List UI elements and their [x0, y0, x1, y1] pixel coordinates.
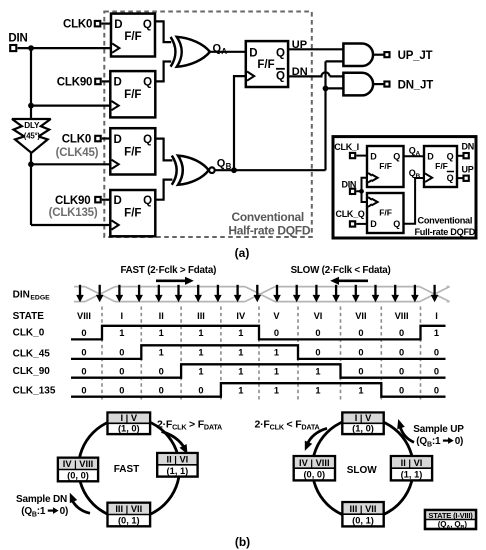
svg-text:1: 1 [238, 367, 243, 377]
wire QB to AND gates [215, 169, 326, 171]
wire FFc Qbar to UP port [457, 177, 463, 179]
svg-text:II | VI: II | VI [167, 455, 189, 465]
svg-text:I: I [121, 311, 124, 321]
svg-text:0: 0 [81, 367, 86, 377]
svg-text:0: 0 [399, 348, 404, 358]
wire QB up to central FF clock [234, 76, 246, 170]
svg-text:F/F: F/F [124, 89, 141, 101]
svg-text:0: 0 [358, 348, 363, 358]
waveform CLK_0 bit values [81, 328, 439, 338]
svg-text:CLK_45: CLK_45 [13, 348, 51, 359]
svg-text:0: 0 [358, 367, 363, 377]
svg-text:1: 1 [198, 328, 203, 338]
svg-text:DIN: DIN [13, 289, 30, 300]
port CLK0 (CLK45) [56, 134, 101, 159]
svg-text:0: 0 [434, 367, 439, 377]
port CLK90 (CLK135) [49, 195, 101, 219]
svg-text:CLK_135: CLK_135 [13, 386, 56, 397]
svg-text:Q: Q [217, 157, 226, 169]
node label QB (inset) [409, 168, 421, 180]
svg-text:(1, 0): (1, 0) [118, 423, 140, 433]
state node IV|VIII slow [294, 456, 335, 480]
svg-text:CLK0: CLK0 [63, 19, 92, 31]
svg-text:DLY: DLY [24, 121, 40, 130]
svg-text:CLK0: CLK0 [62, 134, 91, 146]
inset box: Conventional Full-rate DQFD [333, 137, 476, 238]
wire FF1 Q to XOR top input [155, 21, 171, 42]
svg-text:F/F: F/F [124, 208, 141, 220]
svg-text:Q: Q [143, 19, 152, 31]
svg-text:A: A [221, 47, 227, 56]
wire CLK90 to FF2 D [102, 80, 111, 82]
svg-text:Q: Q [276, 48, 285, 60]
wire FFc Q to DN port [457, 155, 463, 157]
node: QB to DN_JT AND junction [323, 86, 329, 92]
svg-text:0: 0 [315, 348, 320, 358]
wire AND2 out [373, 83, 383, 85]
svg-text:Q: Q [447, 173, 454, 183]
dashed box: Conventional Half-rate DQFD boundary [104, 12, 311, 238]
svg-text:D: D [370, 151, 377, 161]
port DN_JT [384, 79, 433, 91]
svg-text:(CLK135): (CLK135) [49, 207, 98, 219]
DIN eye-crossing trace (gray) [74, 287, 450, 302]
svg-text:F/F: F/F [435, 161, 448, 171]
label Sample UP (Qb:1->0) [413, 424, 464, 449]
svg-text:D: D [114, 19, 122, 31]
svg-text:1: 1 [274, 386, 279, 396]
arrow sample UP (counter-clockwise, pointing up-left) [397, 419, 414, 442]
state node III|VII fast [108, 503, 151, 527]
waveform CLK_90 [71, 364, 446, 377]
svg-text:0: 0 [358, 328, 363, 338]
svg-text:(1, 1): (1, 1) [167, 466, 189, 476]
svg-text:A: A [416, 151, 421, 158]
wire junction to FF2 clock [31, 104, 111, 106]
AND gate G4 (DN_JT) [343, 73, 373, 96]
DIN edge arrows [76, 285, 438, 303]
waveform CLK_45 bit values [81, 348, 439, 358]
node: junction to FF2 clock [28, 103, 34, 109]
state boundary dashed grid [102, 307, 421, 401]
svg-text:0: 0 [274, 328, 279, 338]
svg-text:CLK90: CLK90 [57, 77, 92, 89]
svg-text:(0, 0): (0, 0) [67, 471, 89, 481]
svg-text:UP_JT: UP_JT [398, 50, 433, 62]
port CLK_Q [336, 209, 365, 227]
svg-text:1: 1 [358, 386, 363, 396]
XNOR gate G2 (QB) [172, 156, 215, 185]
wire QB to AND2 input [326, 87, 344, 89]
state node II|VI slow [391, 456, 432, 480]
arrow slow direction (left) [330, 277, 368, 285]
svg-text:UP: UP [292, 39, 307, 51]
waveform CLK_135 [71, 383, 446, 397]
svg-text:0: 0 [119, 367, 124, 377]
svg-text:(0, 1): (0, 1) [118, 516, 140, 526]
wire to FF3 clock [31, 163, 111, 165]
svg-text:D: D [370, 219, 377, 229]
svg-text:(a): (a) [235, 246, 250, 260]
flip-flop FF1 (CLK0 sampler) [111, 14, 155, 57]
wire FF2 Q to XOR bottom input [155, 62, 171, 82]
port CLK0 [63, 19, 100, 31]
svg-text:1: 1 [159, 348, 164, 358]
svg-text:D: D [249, 48, 257, 60]
svg-text:F/F: F/F [257, 59, 274, 71]
svg-text:0: 0 [399, 328, 404, 338]
state node I|V fast [108, 413, 151, 435]
svg-text:F/F: F/F [124, 147, 141, 159]
wire down to FF4 clock [31, 164, 111, 225]
svg-text:Conventional: Conventional [231, 210, 303, 224]
svg-text:DIN: DIN [8, 33, 27, 45]
svg-text:0: 0 [198, 386, 203, 396]
svg-text:0: 0 [81, 328, 86, 338]
svg-text:SLOW (2·Fclk < Fdata): SLOW (2·Fclk < Fdata) [291, 265, 391, 276]
state node I|V slow [342, 413, 383, 435]
svg-text:1: 1 [198, 367, 203, 377]
svg-text:STATE: STATE [13, 311, 45, 322]
wire QB (FFb Q to FFc clock) [404, 178, 425, 224]
svg-text:Sample UP: Sample UP [413, 424, 464, 435]
port UP (inset) [462, 165, 474, 181]
svg-text:0: 0 [119, 348, 124, 358]
svg-text:1: 1 [198, 348, 203, 358]
wire UP (Q to AND1) [288, 48, 343, 50]
waveform CLK_90 bit values [81, 367, 439, 377]
node: DIN junction [28, 45, 34, 51]
delay element DLY (45°) [12, 119, 51, 153]
svg-text:1: 1 [159, 328, 164, 338]
svg-text:Conventional: Conventional [418, 216, 473, 226]
svg-text:DN: DN [462, 142, 474, 152]
label Sample DN (Qb:1->0) [16, 494, 68, 519]
wire DIN to FF1 clock [18, 47, 111, 49]
svg-text:SLOW: SLOW [347, 465, 378, 476]
svg-text:CLK_I: CLK_I [334, 142, 359, 152]
svg-text:1: 1 [238, 348, 243, 358]
AND gate G3 (UP_JT) [343, 44, 373, 67]
svg-text:(1, 0): (1, 0) [352, 423, 374, 433]
svg-text:B: B [226, 162, 232, 171]
svg-text:(0, 0): (0, 0) [303, 470, 325, 480]
svg-text:1: 1 [274, 348, 279, 358]
flip-flop FFb (inset bottom) [367, 193, 404, 233]
svg-text:F/F: F/F [379, 161, 392, 171]
port DIN [8, 33, 27, 52]
legend: STATE (I-VIII) / (QA, QB) [425, 510, 476, 531]
port DIN (inset) [342, 180, 357, 194]
wire DIN down to CLK90 FF branch [30, 48, 32, 106]
svg-text:DN_JT: DN_JT [398, 79, 434, 91]
svg-text:0: 0 [434, 386, 439, 396]
node: QB junction [231, 167, 237, 173]
svg-text:1: 1 [274, 367, 279, 377]
svg-text:IV | VIII: IV | VIII [63, 459, 94, 469]
waveform CLK_135 bit values [81, 386, 439, 396]
arrow fast direction (right) [156, 277, 194, 285]
svg-text:Q: Q [447, 151, 454, 161]
wire AND1 out [373, 54, 383, 56]
port CLK90 [57, 77, 101, 89]
svg-text:Q: Q [393, 151, 400, 161]
svg-text:(b): (b) [235, 535, 250, 549]
svg-text:III | VII: III | VII [115, 504, 142, 514]
svg-text:I | V: I | V [121, 413, 138, 423]
svg-text:Q: Q [143, 195, 152, 207]
wire FF4 Q to XNOR bottom input [155, 180, 172, 200]
svg-text:1: 1 [315, 367, 320, 377]
svg-text:Q: Q [213, 42, 222, 54]
svg-text:I | V: I | V [355, 413, 372, 423]
svg-text:0: 0 [399, 367, 404, 377]
wire CLK0(45) to FF3 D [102, 137, 111, 139]
wire CLK90(135) to FF4 D [102, 199, 111, 201]
svg-text:Sample DN: Sample DN [16, 494, 67, 505]
svg-text:FAST (2·Fclk > Fdata): FAST (2·Fclk > Fdata) [120, 265, 216, 276]
label Conventional Half-rate DQFD [228, 210, 310, 238]
svg-text:IV | VIII: IV | VIII [299, 458, 330, 468]
wire QA (FFa Q to FFc D) [404, 155, 425, 157]
label Conventional Full-rate DQFD [414, 216, 475, 237]
state interval labels [77, 311, 438, 321]
flip-flop FF3 (CLK45 sampler) [110, 128, 155, 174]
node: DIN inset junction [359, 189, 364, 194]
svg-text:(45°): (45°) [24, 132, 41, 141]
flip-flop FF2 (CLK90 sampler) [110, 71, 155, 117]
svg-text:D: D [114, 195, 122, 207]
svg-text:1: 1 [238, 328, 243, 338]
wire DIN to FFa/FFb clocks [356, 178, 366, 202]
state node IV|VIII fast [58, 458, 98, 482]
svg-text:1: 1 [315, 386, 320, 396]
svg-text:Full-rate DQFD: Full-rate DQFD [414, 227, 475, 237]
FAST state cycle circle [78, 418, 179, 519]
svg-text:I: I [435, 311, 438, 321]
svg-text:0: 0 [315, 328, 320, 338]
svg-text:II: II [159, 311, 164, 321]
flip-flop FFa (inset top) [367, 146, 404, 187]
svg-text:0: 0 [159, 386, 164, 396]
port CLK_I [334, 142, 359, 158]
state node II|VI fast [157, 453, 197, 477]
SLOW state cycle circle [312, 418, 413, 519]
svg-text:VIII: VIII [395, 311, 409, 321]
wire QB vertical to AND inputs [326, 61, 344, 170]
node label QB [217, 157, 232, 171]
port UP_JT [384, 50, 432, 62]
central flip-flop FF5 (UP/DN generator) [246, 41, 288, 87]
svg-text:CLK90: CLK90 [55, 195, 90, 207]
wire CLK_I to FFa D [356, 155, 367, 157]
arrow fast transition (clockwise) [162, 432, 188, 455]
svg-text:IV: IV [236, 311, 246, 321]
state node III|VII slow [342, 502, 383, 526]
svg-text:1: 1 [238, 386, 243, 396]
arrow slow transition (counter-clockwise) [305, 428, 327, 451]
wire delay output down [30, 152, 32, 164]
svg-text:VII: VII [355, 311, 366, 321]
svg-text:B: B [416, 173, 421, 180]
wire CLK_Q to FFb D [356, 223, 367, 225]
wire QA to central FF D [210, 51, 246, 53]
svg-text:0: 0 [119, 386, 124, 396]
svg-text:0: 0 [399, 386, 404, 396]
svg-text:D: D [427, 151, 434, 161]
svg-text:STATE (I-VIII): STATE (I-VIII) [428, 511, 473, 520]
waveform CLK_0 [71, 326, 446, 340]
svg-text:II | VI: II | VI [401, 458, 423, 468]
svg-text:D: D [114, 77, 122, 89]
node: delayed DIN junction [28, 161, 34, 167]
waveform CLK_45 [71, 345, 446, 359]
svg-text:0): 0) [60, 506, 69, 517]
svg-text:UP: UP [462, 165, 474, 175]
svg-text:Q: Q [143, 134, 152, 146]
svg-text:EDGE: EDGE [30, 295, 50, 302]
svg-text:F/F: F/F [379, 208, 392, 218]
svg-text:1: 1 [119, 328, 124, 338]
svg-text:D: D [114, 134, 122, 146]
svg-text:CLK_90: CLK_90 [13, 366, 51, 377]
svg-text:CLK_Q: CLK_Q [336, 209, 365, 219]
arrow sample DN (clockwise, pointing up-left) [70, 493, 90, 514]
svg-text:(1, 1): (1, 1) [401, 470, 423, 480]
svg-text:0: 0 [81, 348, 86, 358]
svg-text:CLK_0: CLK_0 [13, 327, 45, 338]
port DN (inset) [462, 142, 474, 159]
svg-text:III: III [197, 311, 205, 321]
svg-text:DN: DN [292, 66, 308, 78]
wire DN (Qbar to AND2) with hop over QB [288, 72, 343, 76]
svg-text:0: 0 [159, 367, 164, 377]
svg-text:Q: Q [143, 77, 152, 89]
svg-text:0: 0 [434, 348, 439, 358]
svg-text:VIII: VIII [77, 311, 91, 321]
svg-text:(CLK45): (CLK45) [56, 147, 99, 159]
flip-flop FFc (inset right) [424, 146, 457, 187]
svg-text:V: V [273, 311, 280, 321]
label DIN_EDGE [13, 289, 51, 301]
svg-text:1: 1 [434, 328, 439, 338]
svg-text:III | VII: III | VII [350, 504, 377, 514]
svg-text:Q: Q [393, 219, 400, 229]
svg-text:(0, 1): (0, 1) [352, 516, 374, 526]
node label QA [213, 42, 228, 56]
wire CLK0 to FF1 D [101, 23, 111, 25]
node label QA (inset) [409, 146, 421, 158]
svg-text:0: 0 [81, 386, 86, 396]
wire junction down into delay element [30, 106, 32, 120]
svg-text:VI: VI [314, 311, 323, 321]
flip-flop FF4 (CLK135 sampler) [110, 190, 155, 236]
svg-text:FAST: FAST [114, 464, 140, 475]
wire FF3 Q to XNOR top input [155, 139, 172, 161]
svg-text:Q: Q [276, 71, 285, 83]
svg-text:F/F: F/F [124, 31, 141, 43]
svg-text:0): 0) [455, 436, 464, 447]
svg-text:Half-rate DQFD: Half-rate DQFD [228, 223, 310, 237]
XOR gate G1 (QA) [171, 37, 210, 67]
